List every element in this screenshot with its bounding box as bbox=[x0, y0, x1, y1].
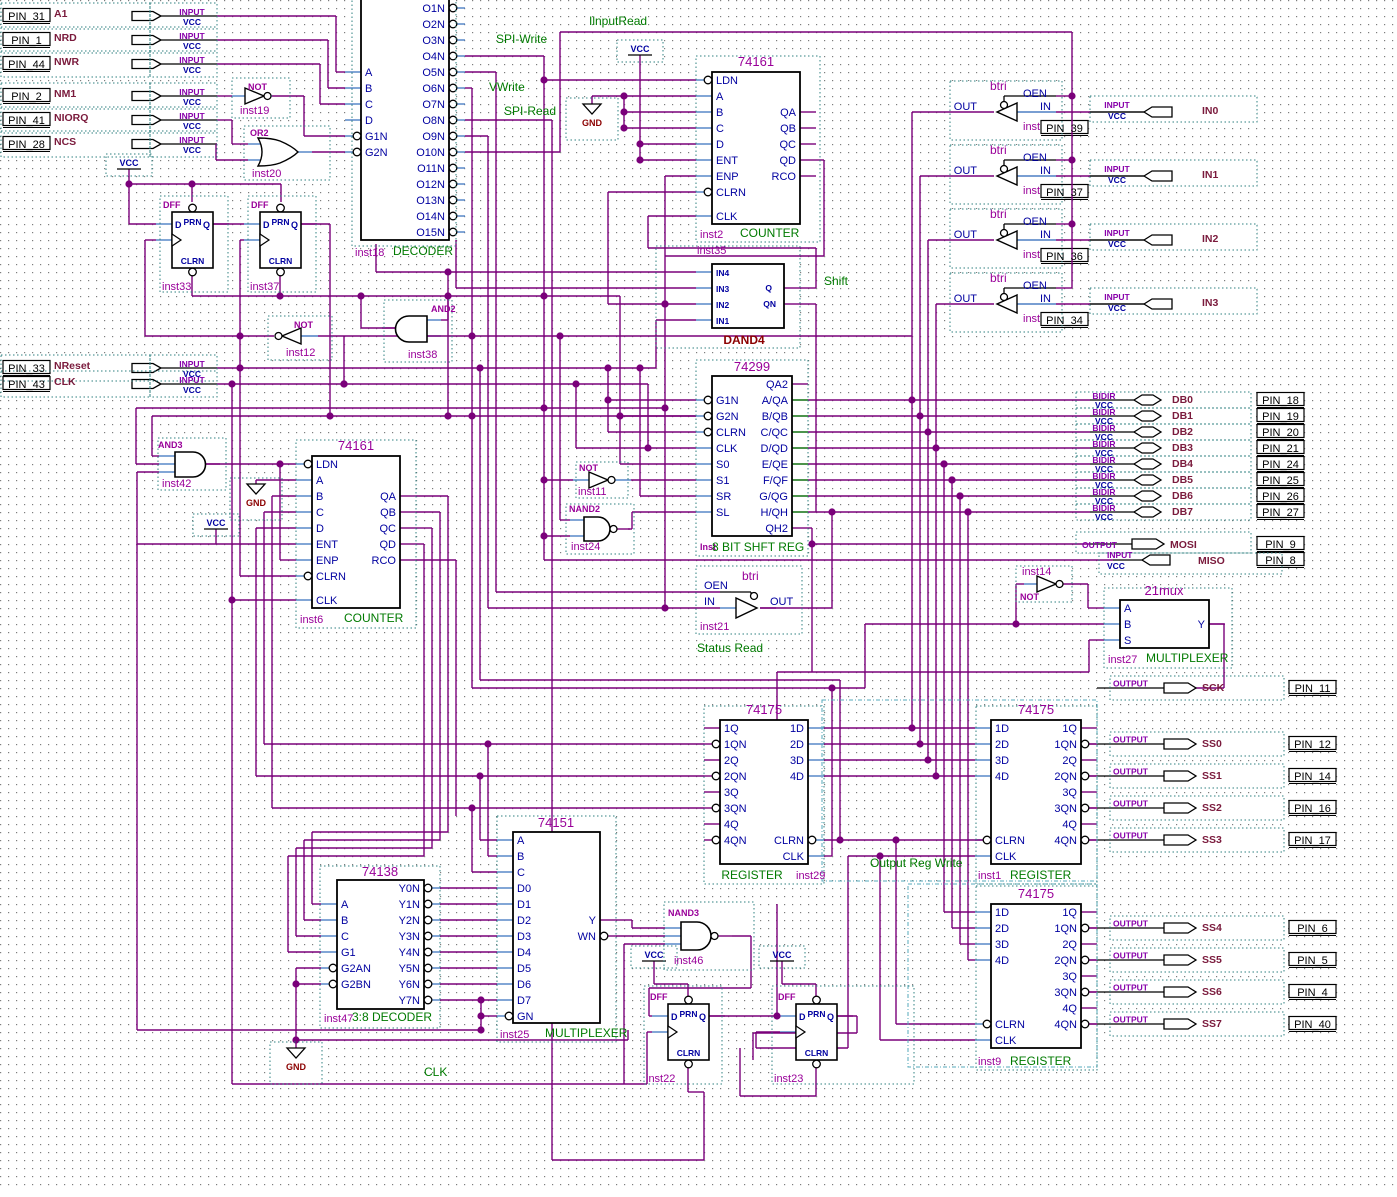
svg-text:PIN_20: PIN_20 bbox=[1262, 427, 1299, 439]
INPUT connector (left-pointing) bbox=[1144, 171, 1172, 181]
svg-text:PIN_31: PIN_31 bbox=[8, 11, 45, 23]
svg-text:D: D bbox=[716, 139, 724, 151]
selection outline bbox=[1104, 588, 1232, 668]
svg-text:OUT: OUT bbox=[954, 293, 978, 305]
svg-text:INPUT: INPUT bbox=[179, 87, 205, 97]
svg-text:OEN: OEN bbox=[1023, 280, 1047, 292]
svg-text:D4: D4 bbox=[517, 947, 531, 959]
svg-text:IN2: IN2 bbox=[1202, 233, 1219, 245]
svg-text:O15N: O15N bbox=[416, 227, 445, 239]
svg-text:SS6: SS6 bbox=[1202, 986, 1222, 998]
svg-text:PIN_9: PIN_9 bbox=[1265, 539, 1296, 551]
INPUT connector bbox=[132, 92, 161, 101]
pin stubs of dec bbox=[345, 71, 361, 73]
junction (936,448) bbox=[932, 444, 939, 451]
OUTPUT connector bbox=[1164, 1019, 1196, 1029]
svg-text:3:8 DECODER: 3:8 DECODER bbox=[352, 1010, 432, 1024]
pin stubs of 74161b bbox=[296, 463, 304, 465]
svg-text:PIN_40: PIN_40 bbox=[1294, 1019, 1331, 1031]
svg-text:D3: D3 bbox=[517, 931, 531, 943]
svg-text:1D: 1D bbox=[995, 723, 1009, 735]
svg-text:CLK: CLK bbox=[995, 851, 1017, 863]
svg-text:Y: Y bbox=[589, 915, 597, 927]
svg-text:D: D bbox=[175, 220, 182, 230]
selection outline bbox=[1090, 288, 1257, 314]
selection outline bbox=[696, 360, 808, 556]
svg-text:O1N: O1N bbox=[422, 3, 445, 15]
INPUT connector bbox=[132, 116, 161, 125]
selection outline bbox=[704, 706, 824, 884]
OUTPUT connector bbox=[1164, 683, 1196, 693]
IC 74175b bbox=[991, 720, 1081, 864]
svg-text:PIN_24: PIN_24 bbox=[1262, 459, 1299, 471]
junction (936,776) bbox=[932, 772, 939, 779]
svg-text:GN: GN bbox=[517, 1011, 534, 1023]
wire: NAND3 out -> down to inst22 D bbox=[732, 935, 751, 937]
OUTPUT connector bbox=[1164, 771, 1196, 781]
svg-text:4Q: 4Q bbox=[1062, 1003, 1077, 1015]
junction (192,184) bbox=[188, 180, 195, 187]
VCC symbol bbox=[117, 168, 141, 170]
pin box PIN_2 bbox=[3, 89, 50, 102]
wire: inst2 CLK net from DAND4 Q bbox=[648, 215, 696, 217]
svg-text:DB7: DB7 bbox=[1172, 506, 1193, 518]
GND symbol bbox=[287, 1048, 305, 1058]
wire: row 408 long horizontal (left end feeds AND3 in2) bbox=[136, 407, 665, 409]
selection outline bbox=[950, 145, 1062, 204]
svg-text:GND: GND bbox=[582, 118, 603, 128]
junction (448,416) bbox=[444, 412, 451, 419]
selection outline bbox=[352, 0, 456, 246]
svg-text:inst42: inst42 bbox=[162, 478, 191, 490]
BIDIR connector bbox=[1134, 475, 1161, 485]
OUTPUT connector bbox=[1164, 739, 1196, 749]
junction (481,1000) bbox=[477, 996, 484, 1003]
selection outline bbox=[976, 886, 1097, 1070]
svg-text:NCS: NCS bbox=[54, 136, 76, 148]
pin box PIN_34 bbox=[1041, 313, 1088, 326]
selection outline bbox=[1110, 732, 1284, 756]
svg-text:74299: 74299 bbox=[734, 359, 770, 374]
svg-text:VCC: VCC bbox=[772, 950, 792, 960]
svg-text:CLRN: CLRN bbox=[805, 1048, 829, 1058]
group selection outline bbox=[908, 884, 1097, 1067]
BIDIR connector bbox=[1134, 395, 1161, 405]
svg-text:inst9: inst9 bbox=[978, 1056, 1001, 1068]
selection outline bbox=[150, 107, 217, 133]
svg-text:VCC: VCC bbox=[1108, 239, 1126, 249]
pin box PIN_6 bbox=[1289, 921, 1336, 934]
selection outline bbox=[150, 27, 217, 53]
junction (840,840) bbox=[836, 836, 843, 843]
BIDIR connector bbox=[1134, 427, 1161, 437]
INPUT connector bbox=[132, 60, 161, 69]
junction (280,296) bbox=[276, 292, 283, 299]
selection outline bbox=[950, 209, 1062, 268]
svg-text:INPUT: INPUT bbox=[179, 375, 205, 385]
svg-text:RCO: RCO bbox=[772, 171, 797, 183]
svg-text:PIN_27: PIN_27 bbox=[1262, 507, 1299, 519]
svg-text:IN3: IN3 bbox=[716, 284, 730, 294]
svg-text:OUT: OUT bbox=[954, 165, 978, 177]
svg-text:CLK: CLK bbox=[783, 851, 805, 863]
junction (232,600) bbox=[228, 596, 235, 603]
selection outline bbox=[1076, 456, 1251, 472]
svg-text:A: A bbox=[341, 899, 349, 911]
selection outline bbox=[664, 902, 754, 970]
selection outline bbox=[656, 246, 800, 348]
VCC symbol bbox=[204, 528, 228, 530]
svg-text:QB: QB bbox=[380, 507, 396, 519]
svg-text:MULTIPLEXER: MULTIPLEXER bbox=[1146, 651, 1229, 665]
svg-text:3D: 3D bbox=[995, 939, 1009, 951]
svg-text:A1: A1 bbox=[54, 8, 68, 20]
svg-text:IN1: IN1 bbox=[716, 316, 730, 326]
svg-text:Y4N: Y4N bbox=[399, 947, 420, 959]
svg-text:PIN_21: PIN_21 bbox=[1262, 443, 1299, 455]
svg-text:inst23: inst23 bbox=[774, 1073, 803, 1085]
pin box PIN_8 bbox=[1257, 553, 1304, 566]
wire: O6N -> 416 dot and 688 row bbox=[465, 87, 472, 89]
svg-text:NM1: NM1 bbox=[54, 88, 76, 100]
svg-text:O8N: O8N bbox=[422, 115, 445, 127]
svg-text:SS0: SS0 bbox=[1202, 738, 1222, 750]
svg-text:4QN: 4QN bbox=[1054, 835, 1077, 847]
svg-text:inst: inst bbox=[1023, 249, 1040, 261]
svg-text:O7N: O7N bbox=[422, 99, 445, 111]
selection outline bbox=[1, 51, 150, 77]
svg-text:B: B bbox=[517, 851, 524, 863]
svg-text:Q: Q bbox=[765, 283, 772, 293]
svg-text:inst11: inst11 bbox=[578, 486, 607, 498]
svg-text:S1: S1 bbox=[716, 475, 729, 487]
junction (296,984) bbox=[292, 980, 299, 987]
svg-text:OUT: OUT bbox=[954, 229, 978, 241]
VCC symbol bbox=[770, 960, 794, 962]
svg-text:SS4: SS4 bbox=[1202, 922, 1222, 934]
svg-text:O2N: O2N bbox=[422, 19, 445, 31]
wire: CLK row 856 bbox=[848, 855, 975, 857]
INPUT connector bbox=[132, 12, 161, 21]
svg-text:btri: btri bbox=[990, 143, 1007, 157]
selection outline bbox=[244, 126, 330, 180]
selection outline bbox=[976, 706, 1097, 884]
svg-text:QA: QA bbox=[380, 491, 397, 503]
wire: 74299 A/QA..H/QH rows to BIDIR + staircase dots bbox=[808, 399, 1090, 401]
junction (944,464) bbox=[940, 460, 947, 467]
svg-text:1QN: 1QN bbox=[724, 739, 747, 751]
wire: B,C,D from verticals x=272/264/256 (rows 808/744/776) bbox=[272, 495, 296, 497]
wire: AND3 in3 long net down to row 1030 bbox=[137, 471, 159, 473]
svg-text:VCC: VCC bbox=[183, 145, 201, 155]
svg-text:inst: inst bbox=[1023, 185, 1040, 197]
pin box PIN_44 bbox=[3, 57, 50, 70]
svg-text:WN: WN bbox=[578, 931, 596, 943]
wire: ENP-QD net (x=665 vertical) bbox=[665, 175, 696, 177]
wire: mux Y -> SCK bbox=[1209, 623, 1224, 625]
junction (296,1040) bbox=[292, 1036, 299, 1043]
selection outline bbox=[759, 946, 805, 968]
wire: IN1 row 320 from NReset bbox=[656, 319, 696, 321]
svg-text:4D: 4D bbox=[995, 955, 1009, 967]
wire: Q22 -> D23 bbox=[709, 1015, 780, 1017]
pin box PIN_36 bbox=[1041, 249, 1088, 262]
selection outline bbox=[150, 371, 217, 397]
wire: Y0N..Y7N -> D0..D7 bbox=[440, 887, 497, 889]
selection outline bbox=[1076, 488, 1251, 504]
svg-text:O13N: O13N bbox=[416, 195, 445, 207]
pin box PIN_33 bbox=[3, 361, 50, 374]
svg-text:DFF: DFF bbox=[650, 992, 668, 1002]
selection outline bbox=[150, 51, 217, 77]
GND symbol bbox=[247, 484, 265, 494]
svg-text:3Q: 3Q bbox=[1062, 787, 1077, 799]
junction (448,296) bbox=[444, 292, 451, 299]
svg-text:IN: IN bbox=[1040, 101, 1051, 113]
junction (648,448) bbox=[644, 444, 651, 451]
selection outline bbox=[617, 40, 663, 62]
svg-text:PIN_5: PIN_5 bbox=[1297, 955, 1328, 967]
svg-text:inst47: inst47 bbox=[324, 1013, 353, 1025]
svg-text:IN: IN bbox=[1040, 229, 1051, 241]
IC 74161b bbox=[312, 456, 400, 608]
junction (129,184) bbox=[125, 180, 132, 187]
svg-text:inst20: inst20 bbox=[252, 168, 281, 180]
wire: ENT row left extension bbox=[137, 543, 296, 545]
svg-text:A/QA: A/QA bbox=[762, 395, 789, 407]
svg-text:QH2: QH2 bbox=[765, 523, 788, 535]
svg-text:4D: 4D bbox=[995, 771, 1009, 783]
svg-text:IN: IN bbox=[704, 596, 715, 608]
IC 74151 bbox=[513, 832, 600, 1023]
svg-text:O6N: O6N bbox=[422, 83, 445, 95]
svg-text:REGISTER: REGISTER bbox=[721, 868, 783, 882]
svg-text:INPUT: INPUT bbox=[179, 31, 205, 41]
BIDIR connector bbox=[1134, 491, 1161, 501]
group selection outline bbox=[822, 700, 1097, 881]
svg-text:O14N: O14N bbox=[416, 211, 445, 223]
svg-text:DFF: DFF bbox=[251, 200, 269, 210]
svg-text:SS7: SS7 bbox=[1202, 1018, 1222, 1030]
wire: CLRN wires of DFF33/37 -> row 296 bbox=[191, 276, 193, 296]
BIDIR connector bbox=[1134, 411, 1161, 421]
svg-text:SS1: SS1 bbox=[1202, 770, 1222, 782]
svg-text:G1N: G1N bbox=[365, 131, 388, 143]
pin box PIN_43 bbox=[3, 377, 50, 390]
svg-text:D: D bbox=[365, 115, 373, 127]
svg-text:REGISTER: REGISTER bbox=[1010, 868, 1072, 882]
svg-text:inst25: inst25 bbox=[500, 1029, 529, 1041]
DFF inst22 bbox=[668, 1004, 709, 1060]
wire: btri OUT wires bbox=[912, 111, 994, 113]
pin box PIN_41 bbox=[3, 113, 50, 126]
selection outline bbox=[1, 107, 150, 133]
selection outline bbox=[320, 866, 440, 1028]
junction (560,336) bbox=[556, 332, 563, 339]
selection outline bbox=[160, 196, 228, 292]
junction (330,416) bbox=[326, 412, 333, 419]
pin box PIN_25 bbox=[1257, 473, 1304, 486]
OUTPUT connector bbox=[1132, 539, 1164, 549]
svg-text:D7: D7 bbox=[517, 995, 531, 1007]
selection outline bbox=[1, 355, 150, 381]
wire: Q33 -> D37 bbox=[213, 223, 244, 225]
junction (640,144) bbox=[636, 140, 643, 147]
svg-text:PIN_2: PIN_2 bbox=[11, 91, 42, 103]
svg-text:S: S bbox=[1124, 635, 1131, 647]
svg-text:inst33: inst33 bbox=[162, 281, 191, 293]
svg-text:G1: G1 bbox=[341, 947, 356, 959]
selection outline bbox=[1, 27, 150, 53]
svg-text:CLRN: CLRN bbox=[995, 835, 1025, 847]
junction (620,416) bbox=[616, 412, 623, 419]
svg-text:2D: 2D bbox=[995, 739, 1009, 751]
svg-text:PIN_4: PIN_4 bbox=[1297, 987, 1328, 999]
svg-text:inst38: inst38 bbox=[408, 349, 437, 361]
svg-text:Q: Q bbox=[203, 220, 210, 230]
junction (832,512) bbox=[828, 508, 835, 515]
svg-text:Shift: Shift bbox=[824, 274, 849, 288]
selection outline bbox=[232, 78, 290, 118]
svg-text:Q: Q bbox=[699, 1012, 706, 1022]
junction (280,464) bbox=[276, 460, 283, 467]
selection outline bbox=[576, 462, 628, 498]
selection outline bbox=[696, 56, 820, 242]
pin box PIN_9 bbox=[1257, 537, 1304, 550]
svg-text:B: B bbox=[316, 491, 323, 503]
NOT gate bbox=[1037, 576, 1056, 592]
svg-text:COUNTER: COUNTER bbox=[740, 226, 800, 240]
tri-state buffer btri bbox=[997, 231, 1017, 249]
svg-text:QB: QB bbox=[780, 123, 796, 135]
wire: NOT14 bbox=[1015, 584, 1017, 624]
svg-text:inst21: inst21 bbox=[700, 621, 729, 633]
svg-text:OUTPUT: OUTPUT bbox=[1113, 767, 1149, 777]
svg-text:2QN: 2QN bbox=[1054, 771, 1077, 783]
tri-state buffer btri bbox=[997, 167, 1017, 185]
NAND3 gate inst46 bbox=[681, 922, 711, 950]
svg-text:2D: 2D bbox=[995, 923, 1009, 935]
svg-text:G2BN: G2BN bbox=[341, 979, 371, 991]
svg-text:D5: D5 bbox=[517, 963, 531, 975]
BIDIR connector bbox=[1134, 507, 1161, 517]
junction (361,296) bbox=[357, 292, 364, 299]
pin stubs of 74151 bbox=[497, 839, 513, 841]
junction (880,856) bbox=[876, 852, 883, 859]
svg-text:NOT: NOT bbox=[1020, 592, 1040, 602]
junction (665,304) bbox=[661, 300, 668, 307]
svg-text:PRN: PRN bbox=[808, 1009, 826, 1019]
svg-text:B/QB: B/QB bbox=[762, 411, 788, 423]
wire: Y/WN of 74151 -> NAND3 bbox=[616, 919, 632, 921]
svg-text:2Q: 2Q bbox=[1062, 939, 1077, 951]
svg-text:btri: btri bbox=[990, 271, 1007, 285]
pin box PIN_28 bbox=[3, 137, 50, 150]
svg-text:IN0: IN0 bbox=[1202, 105, 1219, 117]
junction (928,760) bbox=[924, 756, 931, 763]
svg-text:CLRN: CLRN bbox=[716, 427, 746, 439]
svg-text:INPUT: INPUT bbox=[1104, 100, 1130, 110]
svg-text:S0: S0 bbox=[716, 459, 729, 471]
svg-text:Y0N: Y0N bbox=[399, 883, 420, 895]
svg-text:VCC: VCC bbox=[183, 41, 201, 51]
svg-text:PIN_41: PIN_41 bbox=[8, 115, 45, 127]
wire: QN DAND4 -> down x=816 to H/QH row bbox=[800, 303, 816, 305]
wire: NOT12 bbox=[240, 335, 274, 337]
selection outline bbox=[950, 273, 1062, 332]
DFF inst37 bbox=[260, 212, 301, 268]
wire: 74138 G2AN/G2BN + GND bbox=[296, 967, 321, 969]
svg-text:2QN: 2QN bbox=[1054, 955, 1077, 967]
junction (240,368) bbox=[236, 364, 243, 371]
svg-text:btri: btri bbox=[990, 79, 1007, 93]
junction (1072,160) bbox=[1068, 156, 1075, 163]
svg-text:74151: 74151 bbox=[538, 815, 574, 830]
svg-text:inst6: inst6 bbox=[300, 614, 323, 626]
svg-text:C: C bbox=[341, 931, 349, 943]
INPUT connector bbox=[132, 36, 161, 45]
svg-text:GND: GND bbox=[246, 498, 267, 508]
VCC symbol bbox=[642, 960, 666, 962]
junction (1016,624) bbox=[1012, 620, 1019, 627]
wire: O8N -> x=552 down to 1160 row bbox=[465, 119, 552, 121]
svg-text:PIN_39: PIN_39 bbox=[1046, 123, 1083, 135]
svg-text:ENP: ENP bbox=[316, 555, 339, 567]
svg-text:inst27: inst27 bbox=[1108, 654, 1137, 666]
junction (344,384) bbox=[340, 380, 347, 387]
svg-text:Y: Y bbox=[1198, 619, 1206, 631]
svg-text:D: D bbox=[799, 1012, 806, 1022]
selection outline bbox=[1076, 424, 1251, 440]
svg-text:NOT: NOT bbox=[579, 463, 599, 473]
svg-text:OEN: OEN bbox=[1023, 152, 1047, 164]
wire: Q23 -> bbox=[836, 1015, 857, 1017]
svg-text:Status Read: Status Read bbox=[697, 641, 763, 655]
svg-text:D: D bbox=[263, 220, 270, 230]
svg-text:GND: GND bbox=[286, 1062, 307, 1072]
svg-text:DAND4: DAND4 bbox=[723, 333, 765, 347]
tri-state buffer inst21 bbox=[736, 598, 757, 618]
junction (665,304) bbox=[661, 300, 668, 307]
svg-text:inst12: inst12 bbox=[286, 347, 315, 359]
pin box PIN_39 bbox=[1041, 121, 1088, 134]
wire: CLK 74299 from x=576; OEN btri21 from CLK row x=648 bbox=[575, 384, 577, 448]
junction (480,776) bbox=[476, 772, 483, 779]
tri-state buffer btri bbox=[997, 103, 1017, 121]
svg-text:SS2: SS2 bbox=[1202, 802, 1222, 814]
svg-text:D: D bbox=[671, 1012, 678, 1022]
wire: ENP from AND3-out net bbox=[280, 559, 296, 561]
svg-text:inst2: inst2 bbox=[700, 229, 723, 241]
svg-text:NOT: NOT bbox=[294, 320, 314, 330]
wire: NReset / CLK long rows bbox=[217, 367, 656, 369]
junction (480,368) bbox=[476, 364, 483, 371]
svg-text:3D: 3D bbox=[995, 755, 1009, 767]
pin box PIN_11 bbox=[1289, 681, 1336, 694]
svg-text:DB0: DB0 bbox=[1172, 394, 1193, 406]
selection outline bbox=[268, 316, 332, 360]
svg-text:inst18: inst18 bbox=[355, 247, 384, 259]
junction (481,1016) bbox=[477, 1012, 484, 1019]
svg-text:A: A bbox=[316, 475, 324, 487]
svg-text:PIN_1: PIN_1 bbox=[11, 35, 42, 47]
pin box PIN_40 bbox=[1289, 1017, 1336, 1030]
IC dand4 bbox=[712, 264, 784, 328]
svg-text:1Q: 1Q bbox=[1062, 907, 1077, 919]
selection outline bbox=[1, 3, 150, 29]
svg-text:PIN_26: PIN_26 bbox=[1262, 491, 1299, 503]
svg-text:INPUT: INPUT bbox=[179, 111, 205, 121]
